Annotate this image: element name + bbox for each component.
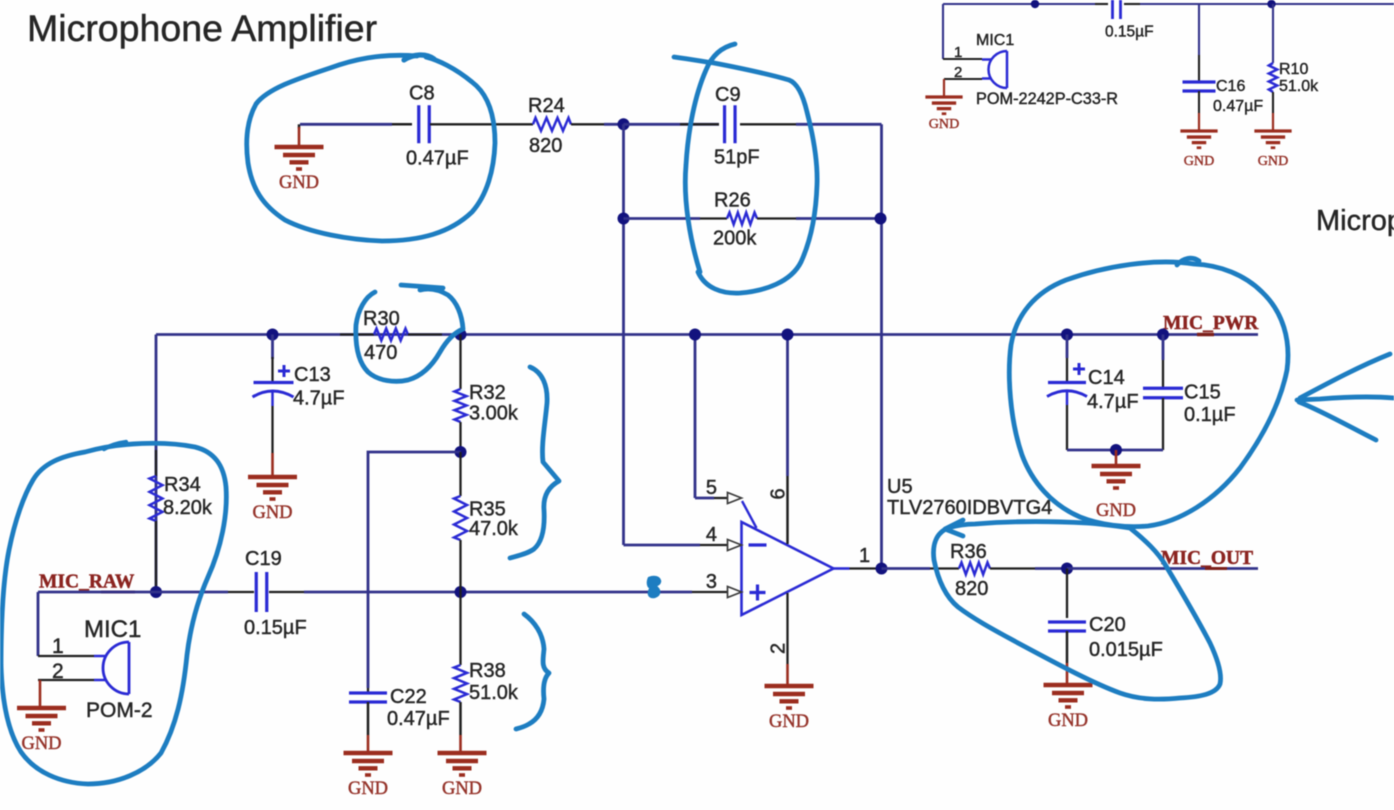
svg-text:2: 2 [52, 660, 64, 683]
wire top row C9 [624, 123, 720, 126]
resistor R10 [1272, 4, 1274, 63]
capacitor C15 [1162, 335, 1165, 361]
annotation circle around C9/R26 [685, 44, 735, 272]
svg-text:820: 820 [529, 135, 562, 157]
wire C9 to corner [740, 123, 800, 125]
svg-text:GND: GND [1048, 711, 1088, 731]
svg-text:C19: C19 [245, 548, 282, 570]
resistor R24 [533, 118, 571, 131]
node rail/C13 [267, 329, 279, 341]
svg-text:GND: GND [442, 779, 482, 799]
node MIC_RAW [150, 586, 162, 598]
svg-text:47.0k: 47.0k [469, 518, 519, 540]
svg-text:0.47µF: 0.47µF [406, 148, 469, 170]
capacitor C20 [1066, 569, 1068, 619]
svg-text:2: 2 [768, 643, 790, 654]
node R26 right [875, 213, 887, 225]
ground GND (C22) [344, 753, 393, 768]
ground GND (C14/C15) [1092, 466, 1141, 481]
capacitor C16 [1198, 4, 1200, 55]
node rail/C15 [1157, 329, 1169, 341]
microphone MIC1 (lower) symbol [94, 656, 106, 680]
wire MIC_PWR rail [156, 333, 1258, 336]
wire pin3 row [156, 591, 228, 594]
svg-text:MIC_PWR: MIC_PWR [1163, 313, 1259, 334]
svg-text:C22: C22 [390, 686, 427, 708]
svg-text:1: 1 [954, 44, 962, 61]
svg-text:C20: C20 [1089, 614, 1126, 636]
svg-text:51.0k: 51.0k [469, 682, 519, 704]
wire C14-C15 bottom [1067, 449, 1163, 452]
svg-text:4.7µF: 4.7µF [293, 388, 345, 410]
resistor R32 [459, 335, 461, 390]
svg-text:0.1µF: 0.1µF [1184, 404, 1236, 426]
capacitor C8 [419, 105, 430, 143]
capacitor C9 [725, 105, 736, 143]
svg-text:R36: R36 [950, 541, 987, 563]
microphone MIC1 (upper) wires [942, 4, 944, 59]
svg-text:GND: GND [769, 712, 809, 732]
node R36/C20 [1061, 563, 1073, 575]
node output [876, 563, 888, 575]
node R26 left [618, 213, 630, 225]
svg-text:Microphone Amplifier: Microphone Amplifier [27, 7, 377, 49]
svg-text:R38: R38 [469, 660, 506, 682]
ground GND (R38) [438, 753, 487, 768]
microphone MIC1 (lower) pin wires [38, 655, 94, 657]
wire MIC_OUT [1067, 567, 1258, 570]
pin 4 [624, 544, 701, 547]
annotation brace R32/R35 [510, 367, 559, 558]
svg-text:1: 1 [52, 635, 64, 658]
svg-text:6: 6 [768, 488, 790, 499]
capacitor C22 [367, 688, 369, 692]
svg-text:0.015µF: 0.015µF [1089, 639, 1163, 661]
svg-text:R24: R24 [528, 95, 565, 117]
capacitor 0.15uF (mini) [1113, 0, 1121, 19]
annotation circle around C14/C15 [1009, 262, 1288, 527]
op-amp U5 [742, 522, 834, 615]
wire C8 to R24 [430, 123, 533, 125]
annotation stroke MIC_RAW blob top dash [104, 442, 126, 449]
svg-text:GND: GND [348, 779, 388, 799]
microphone MIC1 (upper) symbol [982, 60, 991, 79]
svg-text:POM-2242P-C33-R: POM-2242P-C33-R [976, 90, 1118, 108]
svg-text:51pF: 51pF [714, 147, 760, 169]
annotation circle around C8/GND [247, 55, 495, 241]
wire inverting column [622, 124, 625, 545]
svg-text:200k: 200k [713, 228, 757, 250]
node rail/R32 [455, 329, 467, 341]
svg-text:820: 820 [955, 578, 988, 600]
resistor R34 [155, 450, 157, 476]
node pin3/R35 [455, 586, 467, 598]
annotation circle around R30 [356, 289, 463, 381]
svg-text:GND: GND [1258, 153, 1288, 169]
annotation loop around R36/C20 with arrowhead [934, 522, 1221, 700]
wire left column down [155, 335, 158, 593]
svg-text:GND: GND [279, 173, 319, 193]
resistor R38 [459, 592, 461, 665]
annotation circle around MIC_RAW/R34/MIC1 [1, 443, 226, 784]
svg-text:2: 2 [954, 64, 962, 81]
ground GND (R10) [1254, 131, 1291, 143]
svg-text:GND: GND [21, 734, 61, 754]
svg-text:5: 5 [706, 477, 717, 499]
ground GND (MIC1 upper) [943, 79, 945, 97]
pin 1 output [834, 567, 850, 570]
svg-text:4: 4 [706, 524, 717, 546]
wire output to R36 [882, 567, 931, 570]
wire R26 left [624, 217, 701, 220]
svg-text:GND: GND [929, 116, 959, 132]
wire to C22 [368, 452, 461, 688]
annotation brace R38 [516, 614, 549, 729]
node (mini rail) [1031, 0, 1039, 8]
node R32/R35 [455, 446, 467, 458]
svg-text:C13: C13 [294, 364, 331, 386]
pin 3 [728, 587, 742, 598]
ground GND (C13) [248, 477, 297, 492]
svg-text:R32: R32 [469, 382, 506, 404]
svg-text:GND: GND [1184, 153, 1214, 169]
wire top rail (mini section) [943, 3, 1095, 5]
resistor R26 [727, 213, 757, 225]
svg-text:3.00k: 3.00k [469, 403, 519, 425]
svg-text:U5: U5 [887, 476, 913, 498]
pin 2 [786, 593, 788, 664]
node (mini rail R10) [1267, 0, 1275, 8]
wire MIC_RAW left [38, 591, 156, 594]
node rail/pin5 [689, 329, 701, 341]
node rail/pin6 [782, 329, 794, 341]
wire GND to C8 [300, 123, 392, 126]
svg-text:R34: R34 [164, 474, 201, 496]
svg-text:C14: C14 [1088, 367, 1125, 389]
pin 5 [694, 335, 697, 499]
capacitor C19 [256, 572, 267, 612]
node at R24/C9 junction [618, 118, 630, 130]
svg-text:8.20k: 8.20k [163, 497, 213, 519]
ground GND (C20) [1044, 685, 1093, 700]
wire feedback vertical [880, 124, 883, 568]
resistor R35 [459, 452, 461, 496]
svg-text:0.47µF: 0.47µF [387, 708, 450, 730]
node rail/C14 [1061, 329, 1073, 341]
wire R24 to node [571, 123, 604, 125]
ground GND (C16) [1180, 131, 1217, 143]
svg-text:Microp: Microp [1316, 205, 1394, 237]
svg-text:3: 3 [706, 571, 717, 593]
svg-text:MIC1: MIC1 [976, 32, 1014, 49]
svg-text:C15: C15 [1184, 382, 1221, 404]
resistor R36 [959, 563, 990, 575]
svg-text:0.47µF: 0.47µF [1213, 98, 1263, 115]
svg-text:GND: GND [252, 503, 292, 523]
svg-text:C8: C8 [409, 83, 435, 105]
svg-text:470: 470 [364, 342, 397, 364]
svg-text:0.15µF: 0.15µF [1105, 24, 1154, 41]
wire R26 right [757, 217, 800, 219]
svg-text:51.0k: 51.0k [1279, 78, 1319, 95]
svg-text:TLV2760IDBVTG4: TLV2760IDBVTG4 [887, 497, 1052, 519]
svg-text:C16: C16 [1216, 78, 1245, 95]
annotation scribble pin3 [648, 577, 660, 597]
svg-text:MIC_RAW: MIC_RAW [39, 572, 135, 593]
ground GND (op-amp) [765, 686, 814, 701]
svg-text:MIC1: MIC1 [84, 616, 141, 643]
ground GND (MIC1 lower) [39, 680, 42, 706]
svg-text:R30: R30 [363, 308, 400, 330]
svg-text:C9: C9 [715, 84, 741, 106]
svg-text:GND: GND [1096, 501, 1136, 521]
capacitor C14 polarized [1066, 335, 1069, 359]
resistor R30 [340, 333, 374, 335]
svg-text:4.7µF: 4.7µF [1087, 391, 1139, 413]
node GND (C14/C15) [1110, 444, 1122, 456]
svg-text:1: 1 [859, 545, 870, 567]
svg-text:0.15µF: 0.15µF [244, 617, 307, 639]
svg-text:MIC_OUT: MIC_OUT [1161, 548, 1253, 569]
svg-text:R10: R10 [1279, 61, 1308, 78]
svg-text:R26: R26 [714, 190, 751, 212]
ground GND (C8) [298, 124, 301, 128]
capacitor C13 polarized [271, 335, 274, 360]
pin 6 [786, 335, 789, 477]
annotation arrow right edge [1297, 397, 1394, 400]
svg-text:POM-2: POM-2 [86, 699, 153, 722]
